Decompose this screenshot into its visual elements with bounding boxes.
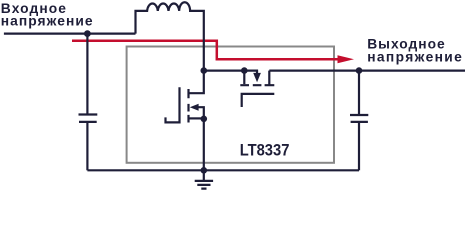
transistor Q2 gate: [242, 94, 275, 107]
node (ground junction): [201, 167, 208, 174]
transistor Q2 channel segments: [240, 84, 274, 86]
ground symbol: [195, 170, 213, 188]
node VOUT junction: [356, 67, 363, 74]
transistor Q1 source lead: [189, 117, 204, 119]
capacitor C2 plates: [350, 115, 368, 122]
capacitor C1 (input) lead: [86, 34, 88, 115]
capacitor C2 (output) lead: [358, 71, 360, 115]
node (input junction): [84, 30, 91, 37]
transistor Q2 source stub: [268, 71, 270, 86]
wire (bottom ground rail): [87, 169, 359, 171]
transistor Q1 channel segments: [187, 89, 189, 123]
capacitor C2 bottom lead: [358, 122, 360, 170]
transistor Q1 (main switch MOSFET, vertical) drain lead: [189, 71, 204, 94]
wire (switch node to top MOSFET drain): [204, 69, 258, 71]
node (top MOSFET drain junction): [241, 67, 248, 74]
node (Q1 source junction): [201, 116, 208, 123]
wire (Q1 source to ground rail): [203, 119, 205, 171]
svg-text:напряжение: напряжение: [367, 49, 462, 64]
wire (input rail): [4, 32, 136, 34]
red arrowhead at output: [338, 55, 355, 63]
svg-text:напряжение: напряжение: [1, 13, 93, 28]
transistor Q1 body arrow: [190, 104, 199, 111]
transistor Q1 gate: [166, 87, 180, 122]
capacitor C1 plates: [79, 115, 98, 122]
wire (red power path from input to output): [72, 41, 339, 59]
wire (output rail): [269, 69, 465, 71]
inductor L1: [136, 2, 204, 70]
capacitor C1 bottom lead: [86, 122, 88, 170]
svg-text:LT8337: LT8337: [240, 141, 290, 160]
transistor Q2 body arrow: [256, 71, 258, 74]
IC boundary box U1 (gray outline): [127, 47, 334, 163]
node SW (inductor / switch node): [201, 67, 208, 74]
transistor Q2 (synchronous MOSFET, horizontal) drain stub: [243, 71, 245, 85]
